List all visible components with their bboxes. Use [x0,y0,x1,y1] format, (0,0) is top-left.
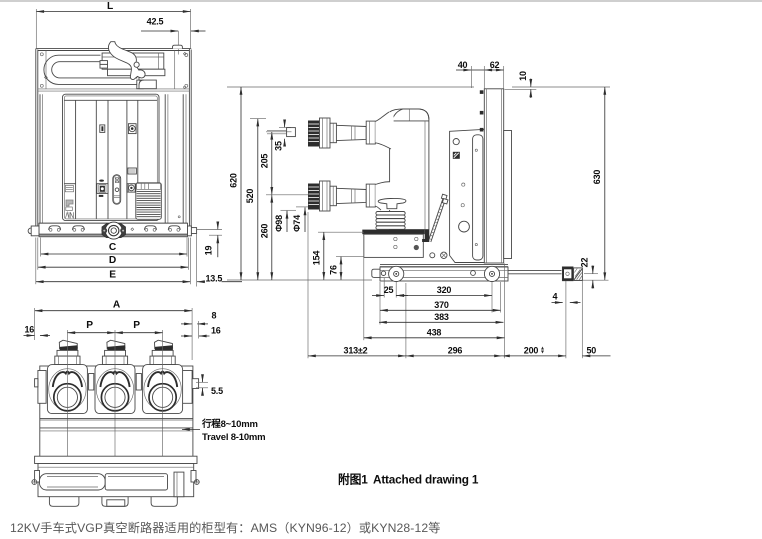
base plate right L-step [422,230,429,242]
lifting tab top right [173,45,183,49]
pawl lower bracket [137,80,144,89]
capsule circle [115,188,119,192]
svg-text:行程8~10mm: 行程8~10mm [201,418,258,430]
svg-text:L: L [107,1,113,12]
pole housing [47,365,87,414]
top reference line [227,86,474,88]
dimension 296 [406,355,502,357]
rail right extension [508,270,562,272]
hook handle 3 [145,226,157,230]
svg-text:296: 296 [448,346,463,356]
dimension 40/62 [456,69,471,71]
breaker outer box right walls [188,49,190,227]
back panel [484,89,503,263]
svg-text:313±2: 313±2 [344,346,368,356]
BOTTOM VIEW GROUP [24,300,266,507]
dimension 4 [552,302,563,304]
SIDE VIEW GROUP [227,60,611,358]
svg-text:19: 19 [204,246,214,256]
dimension 313±2 [308,355,406,357]
wheel right [484,266,499,281]
axle pin right [191,471,196,483]
dimension 200 [502,355,566,357]
upper bushing rings [330,123,336,143]
svg-text:200: 200 [524,346,539,356]
pole cap mid [57,350,78,356]
foot middle [102,497,128,507]
dimension E [36,281,191,283]
rail thick bottom bar [39,234,188,237]
dimension 8 right [181,323,192,325]
ground reference line [227,279,372,281]
pole cap dark band [60,345,78,351]
dimension 35 [284,120,286,128]
svg-text:620: 620 [229,173,239,188]
lower bushing rings [330,186,336,206]
caption text [10,518,441,536]
carriage body [38,464,194,497]
dimension 5.5 [196,381,208,383]
corner screws [40,53,43,56]
strip2 vent block [128,168,136,174]
lower bushing flange [320,181,331,211]
lower bushing neck [375,182,395,210]
rail knob left [28,228,34,234]
dimension 42.5 left line [141,30,178,32]
rod clevis top [441,194,447,199]
svg-text:260: 260 [259,224,269,239]
backplate [40,366,193,461]
carriage rail body [380,267,508,281]
svg-text:520: 520 [245,189,255,204]
svg-text:13.5: 13.5 [206,274,223,284]
lever slide plate lower [108,69,165,76]
small diamond bolts on band [44,76,47,79]
frame plate hole [453,139,459,145]
dimension 630 [604,87,606,280]
dimension P P [67,332,115,334]
svg-text:C: C [109,242,117,253]
205 top reference [266,131,292,133]
pole 3 [143,340,183,413]
svg-text:40: 40 [458,60,468,70]
svg-text:205: 205 [259,154,269,169]
dimension C [41,253,187,255]
wall bolts right [184,86,186,88]
upper bushing collar [366,121,375,144]
L extension line left [35,9,37,48]
center shaft octagon [102,224,126,238]
42.5 extension line [177,31,179,55]
dimension 383 [379,321,503,323]
hook handle 2 [73,226,85,230]
svg-text:25: 25 [384,285,394,295]
lever notch blocks [100,61,108,65]
housing inner ring [49,369,86,411]
guide plate rounded [139,80,156,89]
ribbed heat block [136,183,162,220]
rail left cap [31,226,39,236]
gap lugs between poles [89,374,94,391]
svg-text:4: 4 [553,292,558,302]
205/260 mid reference [266,194,312,196]
cabinet socket square [287,128,296,137]
pole cap slab [59,340,77,349]
U-shaped tube outer [44,55,139,84]
svg-text:35: 35 [274,141,284,151]
svg-text:630: 630 [592,170,602,185]
L extension line right [190,9,192,48]
upper bushing neck to pole [375,111,394,149]
pole center lines [66,330,68,491]
carriage top line [380,264,508,266]
dimension 10 [530,79,532,87]
strip2 lower knob [127,184,135,192]
mechanism band bottom edges [38,88,190,90]
dimension 50 [583,355,611,357]
strip1 lock lower tab [99,195,104,197]
drawer tube left [40,474,106,490]
logo blob [66,200,73,206]
rail right cap [188,226,192,236]
base mounting bracket [364,234,424,257]
strip1 lock bolt [99,180,104,182]
extension verticals bottom dims [307,212,309,358]
carriage flange [35,456,197,463]
left side plate [38,371,46,404]
left wall verticals [39,94,41,223]
scoop cup [378,198,406,208]
panel bolts [480,90,484,94]
svg-text:P: P [133,320,140,331]
svg-text:320: 320 [437,285,452,295]
rating plate [65,186,73,192]
svg-text:Attached drawing 1: Attached drawing 1 [373,473,479,487]
rail diamond bolt [131,228,134,231]
center shaft circles [105,222,122,239]
right block [174,472,184,497]
pole 2 [95,340,135,413]
dimension 76 [336,256,364,258]
dimension 16 left [24,335,35,337]
rail end block [562,267,573,281]
strip 2 verticals [126,100,128,219]
dimension phi74 [296,206,312,208]
drive rod diagonal hatched [428,198,443,242]
travel arrow [182,428,200,430]
svg-text:50: 50 [587,346,597,356]
dimension L line [36,11,190,13]
dimension 22 [584,273,598,275]
dimension 42.5 right line [191,30,206,32]
dimension 520 [257,119,259,280]
band corner gusset left [45,51,47,90]
rail top line [39,222,188,224]
svg-text:E: E [109,270,116,281]
svg-text:Φ98: Φ98 [274,215,284,232]
hook handle 1 [49,226,61,230]
drawer tube right [105,474,167,490]
svg-text:16: 16 [211,326,221,336]
svg-text:22: 22 [579,258,589,268]
inner panel outer [63,94,160,220]
VN glyph [65,212,73,218]
frame big hole [459,221,470,232]
svg-text:62: 62 [490,60,500,70]
axle pin left [35,471,40,483]
lower bushing contact fingers [308,184,320,210]
frame corner screws [430,253,435,258]
pole cap inner lines [408,109,410,121]
inner circle [57,387,77,407]
inner panel inner [64,96,157,219]
svg-text:D: D [109,255,116,266]
right wall verticals [182,94,184,223]
interlock pawl hook [108,42,145,80]
breaker box top edge [36,48,191,50]
foot left [49,497,79,507]
dimension 19 [197,229,222,231]
svg-text:42.5: 42.5 [147,17,164,27]
hook handle 4 [168,226,180,230]
pole 1 [47,340,87,413]
svg-text:10: 10 [518,71,528,81]
svg-text:附图1: 附图1 [338,473,368,487]
pole body with top cap [390,109,429,230]
back panel right flange [504,131,512,259]
label column divider [75,100,77,219]
dimension 370 [380,309,501,311]
interlock wedge hatched [574,268,583,281]
svg-text:383: 383 [434,312,449,322]
frame main plate [450,129,485,262]
lower bushing tube [336,188,366,203]
body horizontal lines below housings [40,418,193,420]
shaft side bolts [101,228,107,234]
frame small holes [462,183,465,186]
svg-text:76: 76 [329,265,339,275]
upper bushing contact fingers [308,121,320,147]
panel inner top rail [64,99,157,101]
upper bushing tube [336,125,366,140]
wheel left [389,266,404,281]
strip 1 verticals [95,100,97,219]
right side plate [182,371,192,404]
dimension 154 [318,231,364,233]
center capsule slot [113,175,121,205]
main circle [54,384,81,411]
breaker outer box left walls [35,49,37,227]
dimension D [38,266,189,268]
pole base plate [362,230,424,235]
dimension 13.5 [196,234,198,287]
strip1 lock body [97,184,108,194]
svg-text:370: 370 [434,300,449,310]
dimension 25 [372,295,384,297]
dimension 16 right [181,335,192,337]
U-shaped tube inner hole [52,62,137,78]
dimension 620 [240,87,242,280]
dimension 320 [396,295,492,297]
strip1 top latch [100,125,105,132]
upper bushing flange [320,118,331,148]
rail body [39,223,188,234]
clamp wave [53,372,82,387]
rail small roller [471,271,476,276]
pole base band [55,356,80,365]
strip2 top button [128,124,136,134]
dimension 438 [364,337,505,339]
pawl pivot hole [134,62,139,67]
lever slide plate upper [102,53,164,69]
svg-text:154: 154 [311,251,321,266]
svg-text:438: 438 [427,328,442,338]
svg-text:8: 8 [212,311,217,321]
svg-text:P: P [86,320,93,331]
left guide pin [372,269,380,277]
foot right [151,497,177,507]
630 bottom reference [574,279,609,281]
rail right pin [191,228,196,234]
lower bushing collar [366,184,375,207]
label column cross line [64,183,75,185]
dimension 205 [271,132,273,195]
dimension phi98 [281,209,297,211]
FRONT VIEW GROUP [28,1,242,287]
bellows corrugations [376,212,405,215]
capsule top block [115,178,119,183]
dimension A [35,310,193,312]
svg-text:Travel 8-10mm: Travel 8-10mm [202,432,265,443]
svg-text:16: 16 [25,325,35,335]
band corner gusset right [174,51,176,90]
dimension 260 [271,195,273,280]
svg-text:Φ74: Φ74 [292,215,302,232]
svg-text:5.5: 5.5 [211,386,223,396]
frame guide strip [473,135,483,260]
svg-text:A: A [113,300,121,311]
right recess verticals [164,94,166,223]
frame flag icon [453,152,460,159]
